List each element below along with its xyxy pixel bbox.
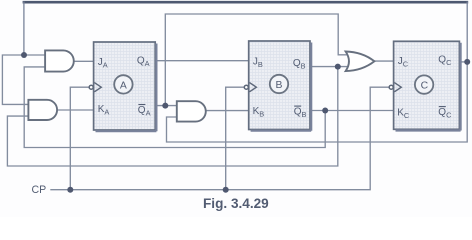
junction node: Q̄_A to inner rail: [162, 103, 168, 109]
flip-flop U3 box (C): [394, 41, 461, 130]
wire: OR gate output to J_C: [374, 60, 394, 62]
wire: flip-flop B clock from CP: [226, 87, 245, 190]
svg-text:B: B: [276, 80, 283, 91]
wire: Q_A to J_B: [155, 60, 249, 62]
wire: AND2 input 2 from Q_B bottom line L4: [7, 67, 337, 166]
junction node: Q̄_B branch to L2: [322, 108, 328, 114]
flip-flop U2 box (B): [249, 41, 312, 131]
junction node: CP to clock A: [67, 187, 73, 193]
wire: Q̄_B to K_C: [310, 110, 394, 112]
wire: flip-flop A clock from CP: [70, 87, 89, 190]
wire: Q_C output to feedback node: [459, 61, 467, 63]
wire: node Q_C branch to AND1 input 1 and AND2 input 1 (left U): [2, 55, 45, 104]
flip-flop U1 box (A): [94, 42, 157, 131]
svg-text:Fig. 3.4.29: Fig. 3.4.29: [203, 196, 269, 211]
flip-flop C clock bubble: [389, 85, 393, 89]
svg-text:C: C: [421, 81, 429, 92]
label Q̄_B (with overbar): [294, 106, 307, 119]
circle marker A: [114, 75, 132, 93]
OR gate U4 (J_C input gate): [346, 52, 375, 72]
wire: Q̄_A to AND3 input 1: [155, 105, 177, 107]
flip-flop C clock edge triangle: [394, 83, 401, 92]
wire: AND3 output to K_B: [206, 110, 249, 112]
flip-flop B clock bubble: [244, 85, 248, 89]
svg-text:A: A: [120, 80, 127, 91]
wire: Q_B to OR gate input 2: [310, 66, 350, 68]
wire: AND2 output to K_A: [57, 109, 94, 111]
flip-flop B clock edge triangle: [250, 83, 257, 92]
wire: AND1 input 2 from Q̄_B bottom line L2: [24, 67, 325, 148]
circle marker B: [270, 75, 288, 93]
flip-flop A clock bubble: [89, 85, 93, 89]
wire: AND1 output to J_A: [74, 60, 94, 62]
junction node: Q_B branch to L4: [335, 64, 341, 70]
wire: inner rail Q̄_A to OR gate input 1: [165, 14, 349, 106]
flip-flop A clock edge triangle: [94, 83, 101, 92]
circle marker C: [415, 75, 433, 93]
junction node: Q_C output feedback: [464, 59, 470, 65]
wire: AND3 input 2 from Q_C bottom line L1: [167, 62, 468, 142]
svg-text:CP: CP: [32, 184, 47, 196]
wire: flip-flop C clock from CP line end: [50, 87, 389, 190]
wire: top feedback rail from Q_C to AND gate 1 input: [23, 2, 469, 62]
AND gate 3 (K_B input gate): [177, 101, 206, 121]
label Q̄_A (with overbar): [138, 105, 151, 118]
label Q̄_C (with overbar): [438, 107, 452, 120]
AND gate 1 (J_A input gate): [45, 50, 74, 71]
junction node: CP to clock B: [223, 187, 229, 193]
AND gate 2 (K_A input gate): [28, 100, 57, 120]
junction node: Q_C rail to AND1 input 1: [21, 52, 27, 58]
